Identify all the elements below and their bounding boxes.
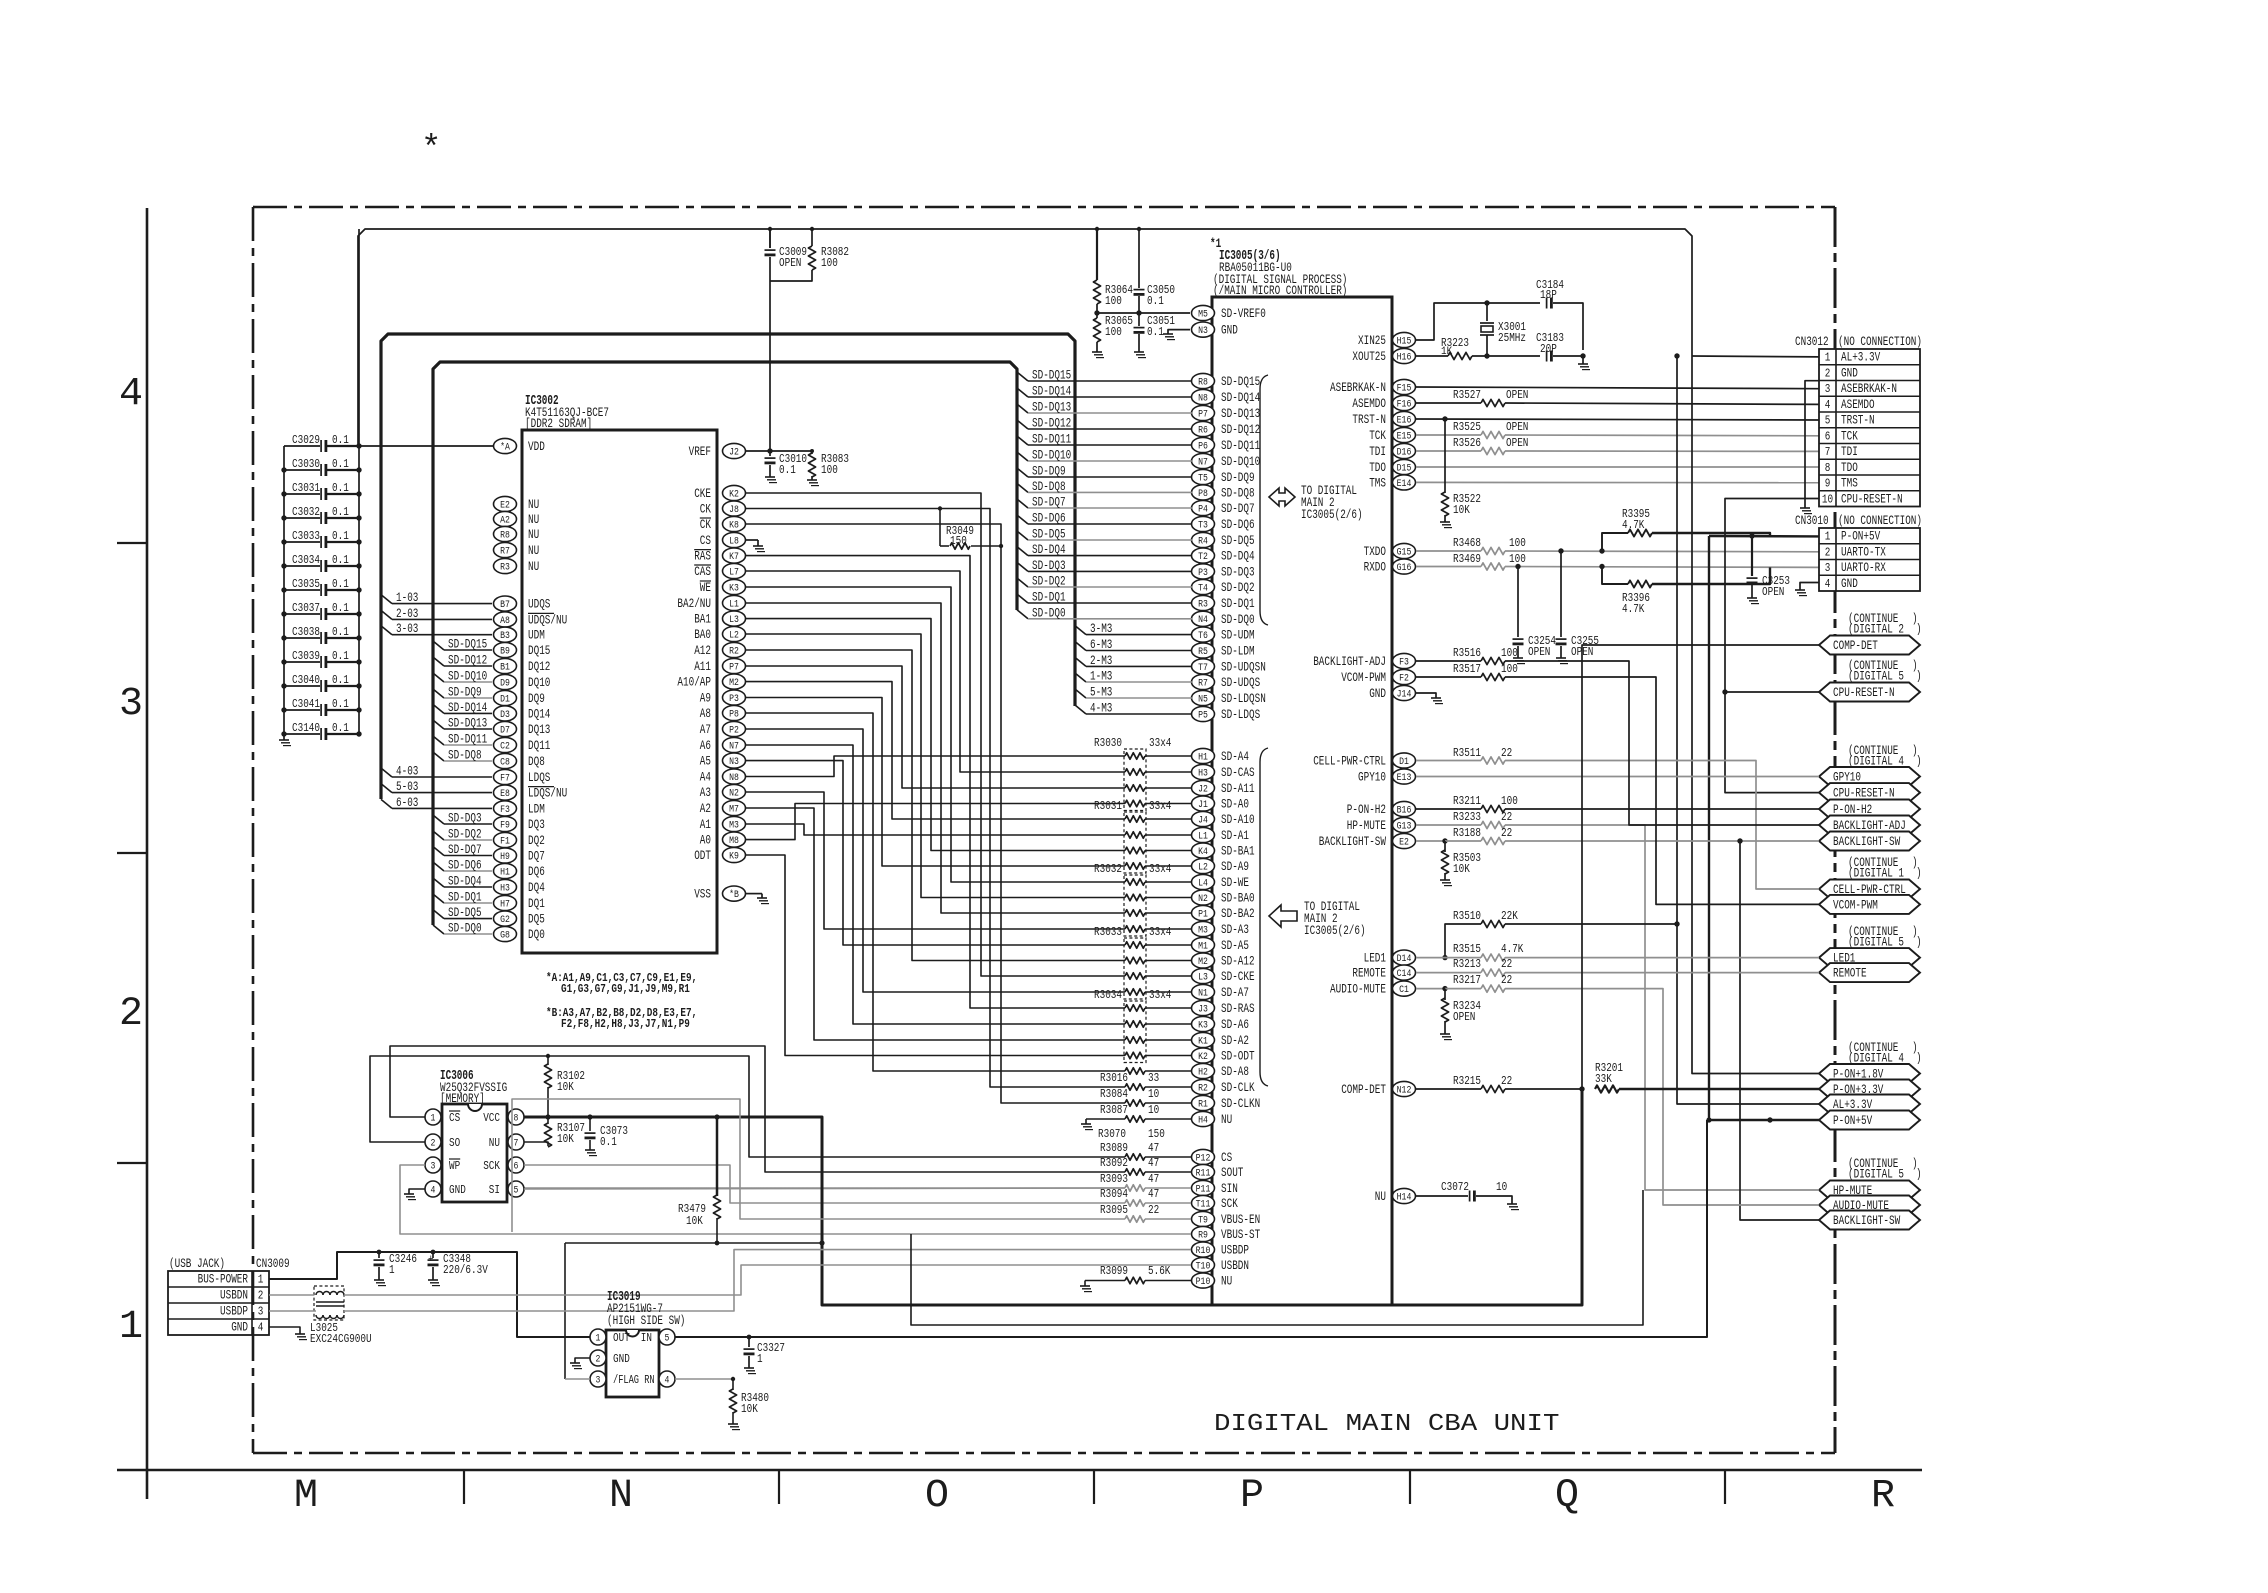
- svg-text:TDI: TDI: [1369, 444, 1386, 459]
- svg-text:(USB JACK): (USB JACK): [169, 1257, 225, 1271]
- net tag REMOTE: [1819, 963, 1920, 982]
- svg-text:C3037: C3037: [292, 601, 320, 615]
- svg-text:J8: J8: [729, 504, 739, 516]
- capacitor C3050 0.1: [1138, 229, 1140, 288]
- svg-text:47: 47: [1148, 1141, 1159, 1155]
- svg-text:N3: N3: [729, 756, 739, 768]
- svg-text:M1: M1: [1198, 940, 1208, 952]
- svg-text:N7: N7: [1198, 456, 1208, 468]
- svg-text:K3: K3: [729, 582, 739, 594]
- svg-text:N12: N12: [1397, 1084, 1412, 1096]
- IC3005 pin D14 LED1: [1393, 950, 1416, 965]
- svg-text:R3094: R3094: [1100, 1187, 1128, 1201]
- capacitor C3031: [284, 493, 320, 495]
- ground N3: [1168, 330, 1190, 334]
- net flag 6-03: [381, 799, 392, 808]
- svg-text:K7: K7: [729, 551, 739, 563]
- IC3005 pin T4 SD-DQ2: [1192, 579, 1215, 594]
- svg-text:*B: *B: [729, 889, 739, 901]
- svg-text:1: 1: [1825, 530, 1831, 544]
- IC3005 pin P4 SD-DQ7: [1192, 500, 1215, 515]
- svg-text:P8: P8: [729, 708, 739, 720]
- svg-text:(DIGITAL 5: (DIGITAL 5: [1848, 1168, 1904, 1182]
- svg-text:R2: R2: [1198, 1082, 1208, 1094]
- svg-text:H1: H1: [500, 866, 510, 878]
- wire BA1 route: [746, 619, 1126, 851]
- IC3005 pin G16 RXDO: [1393, 559, 1416, 574]
- svg-text:USBDP: USBDP: [220, 1305, 248, 1319]
- net tag BACKLIGHT-ADJ: [1819, 816, 1920, 835]
- svg-text:SD-DQ9: SD-DQ9: [1221, 470, 1255, 485]
- IC3002 pin M7 A2: [723, 800, 746, 815]
- IC3005 pin K2 SD-ODT: [1192, 1048, 1215, 1063]
- svg-text:T11: T11: [1196, 1198, 1211, 1210]
- svg-text:R3089: R3089: [1100, 1141, 1128, 1155]
- svg-text:0.1: 0.1: [1147, 294, 1164, 308]
- capacitor C3037: [284, 613, 320, 615]
- svg-text:OPEN: OPEN: [1453, 1010, 1475, 1024]
- svg-text:SD-VREF0: SD-VREF0: [1221, 306, 1266, 321]
- svg-text:SD-A9: SD-A9: [1221, 859, 1249, 874]
- IC3005 pin R11 SOUT: [1192, 1164, 1215, 1179]
- svg-text:E16: E16: [1397, 414, 1412, 426]
- bracket SD-A group: [1260, 748, 1268, 1086]
- svg-text:T4: T4: [1198, 582, 1208, 594]
- svg-text:SD-DQ10: SD-DQ10: [1221, 454, 1260, 469]
- IC3002 pin L1 BA2/NU: [723, 595, 746, 610]
- svg-text:): ): [1916, 670, 1922, 684]
- IC3005 pin F16 ASEMDO: [1393, 395, 1416, 410]
- svg-text:M2: M2: [729, 677, 739, 689]
- net flag SD-DQ6: [1017, 515, 1028, 524]
- net flag 1-03: [381, 595, 392, 604]
- IC3002 pin B1 DQ12: [494, 658, 517, 673]
- IC3002 pin B3 UDM: [494, 627, 517, 642]
- svg-text:3-M3: 3-M3: [1090, 621, 1112, 636]
- svg-text:SD-A3: SD-A3: [1221, 922, 1249, 937]
- IC3002 pin K9 ODT: [723, 847, 746, 862]
- svg-text:SD-DQ2: SD-DQ2: [1221, 580, 1255, 595]
- svg-text:NU: NU: [528, 543, 539, 558]
- IC3005 pin T6 SD-UDM: [1192, 627, 1215, 642]
- svg-text:220/6.3V: 220/6.3V: [443, 1263, 488, 1277]
- svg-text:C8: C8: [500, 756, 510, 768]
- svg-text:TRST-N: TRST-N: [1352, 412, 1386, 427]
- IC3002 pin C8 DQ8: [494, 753, 517, 768]
- svg-text:CPU-RESET-N: CPU-RESET-N: [1833, 685, 1895, 700]
- svg-text:2: 2: [596, 1354, 601, 1365]
- IC3002 pin *A VDD: [494, 438, 517, 453]
- svg-text:R10: R10: [1196, 1245, 1211, 1257]
- svg-text:6: 6: [514, 1161, 519, 1172]
- IC3005 pin N1 SD-A7: [1192, 984, 1215, 999]
- svg-text:H3: H3: [1198, 767, 1208, 779]
- svg-text:N2: N2: [1198, 893, 1208, 905]
- net flag SD-DQ4: [433, 878, 444, 887]
- net flag 2-M3: [1075, 657, 1086, 666]
- svg-text:H7: H7: [500, 898, 510, 910]
- svg-text:8: 8: [1825, 461, 1831, 475]
- svg-text:SD-DQ9: SD-DQ9: [448, 685, 482, 700]
- svg-text:100: 100: [1501, 794, 1518, 808]
- svg-text:L2: L2: [1198, 861, 1208, 873]
- svg-text:G13: G13: [1397, 820, 1412, 832]
- svg-text:F1: F1: [500, 835, 510, 847]
- svg-text:0.1: 0.1: [332, 649, 349, 663]
- svg-text:GND: GND: [613, 1353, 630, 1366]
- svg-text:P1: P1: [1198, 908, 1208, 920]
- svg-text:J4: J4: [1198, 814, 1208, 826]
- IC3005 pin J14 GND: [1393, 685, 1416, 700]
- svg-text:SD-DQ7: SD-DQ7: [1221, 501, 1255, 516]
- svg-text:P12: P12: [1196, 1152, 1211, 1164]
- svg-text:SD-DQ3: SD-DQ3: [1032, 558, 1066, 573]
- IC3005 pin K1 SD-A2: [1192, 1032, 1215, 1047]
- IC3005 pin D15 TDO: [1393, 459, 1416, 474]
- ground CN3009 pin4: [269, 1327, 300, 1334]
- IC3019 pin 2 GND: [590, 1350, 606, 1366]
- svg-text:33x4: 33x4: [1149, 736, 1171, 750]
- svg-text:10: 10: [1496, 1180, 1507, 1194]
- svg-text:SD-DQ0: SD-DQ0: [1221, 612, 1255, 627]
- svg-text:DQ1: DQ1: [528, 896, 545, 911]
- svg-text:1-03: 1-03: [396, 590, 418, 605]
- svg-text:DQ6: DQ6: [528, 864, 545, 879]
- svg-text:SD-LDM: SD-LDM: [1221, 644, 1255, 659]
- IC3005 pin M5 SD-VREF0: [1192, 305, 1215, 320]
- svg-text:K2: K2: [1198, 1051, 1208, 1063]
- svg-text:H4: H4: [1198, 1114, 1208, 1126]
- net flag SD-DQ7: [433, 847, 444, 856]
- svg-text:R3099: R3099: [1100, 1264, 1128, 1278]
- svg-text:2: 2: [258, 1289, 264, 1303]
- IC3005 pin C14 REMOTE: [1393, 965, 1416, 980]
- svg-text:BUS-POWER: BUS-POWER: [198, 1273, 249, 1287]
- svg-text:SD-DQ13: SD-DQ13: [1032, 400, 1071, 415]
- svg-text:0.1: 0.1: [332, 601, 349, 615]
- svg-text:NU: NU: [1375, 1189, 1386, 1204]
- svg-text:SD-DQ0: SD-DQ0: [448, 921, 482, 936]
- wire COMP-DET vertical: [1582, 645, 1819, 1089]
- svg-text:XOUT25: XOUT25: [1352, 349, 1386, 364]
- net tag P-ON-H2: [1819, 800, 1920, 819]
- svg-text:SD-DQ5: SD-DQ5: [1032, 527, 1066, 542]
- capacitor C3030: [284, 469, 320, 471]
- svg-text:4-03: 4-03: [396, 764, 418, 779]
- IC3002 pin H1 DQ6: [494, 863, 517, 878]
- svg-text:10: 10: [1822, 492, 1833, 506]
- net tag GPY10: [1819, 767, 1920, 786]
- ground CN3012 pin2: [1805, 381, 1819, 508]
- svg-text:SD-DQ4: SD-DQ4: [1221, 549, 1255, 564]
- svg-text:G16: G16: [1397, 562, 1412, 574]
- svg-text:0.1: 0.1: [332, 529, 349, 543]
- svg-text:SD-DQ1: SD-DQ1: [448, 890, 482, 905]
- IC3002 pin N2 A3: [723, 784, 746, 799]
- IC3005 pin J3 SD-RAS: [1192, 1000, 1215, 1015]
- svg-text:A5: A5: [700, 754, 711, 769]
- svg-text:3: 3: [258, 1305, 264, 1319]
- svg-text:OUT: OUT: [613, 1332, 630, 1345]
- svg-text:3: 3: [1825, 382, 1831, 396]
- wire /FLAG: [565, 1378, 590, 1380]
- svg-text:BA2/NU: BA2/NU: [677, 596, 711, 611]
- capacitor C3038: [284, 637, 320, 639]
- net flag SD-DQ2: [433, 831, 444, 840]
- svg-text:CELL-PWR-CTRL: CELL-PWR-CTRL: [1313, 754, 1386, 769]
- svg-text:2: 2: [431, 1138, 436, 1149]
- svg-text:22: 22: [1501, 810, 1512, 824]
- svg-text:R3087: R3087: [1100, 1103, 1128, 1117]
- svg-text:C2: C2: [500, 740, 510, 752]
- svg-text:VCOM-PWM: VCOM-PWM: [1341, 670, 1386, 685]
- wire A12 route: [746, 650, 1126, 961]
- svg-text:0.1: 0.1: [332, 673, 349, 687]
- svg-text:R3215: R3215: [1453, 1074, 1481, 1088]
- svg-text:SD-BA2: SD-BA2: [1221, 906, 1255, 921]
- svg-text:4-M3: 4-M3: [1090, 701, 1112, 716]
- net tag LED1: [1819, 948, 1920, 967]
- svg-text:OPEN: OPEN: [1528, 645, 1550, 659]
- svg-text:H14: H14: [1397, 1191, 1412, 1203]
- IC3005 pin P12 CS: [1192, 1149, 1215, 1164]
- svg-text:ASEBRKAK-N: ASEBRKAK-N: [1841, 382, 1897, 396]
- svg-text:SD-ODT: SD-ODT: [1221, 1049, 1255, 1064]
- net flag SD-DQ2: [1017, 578, 1028, 587]
- svg-text:SCK: SCK: [1221, 1196, 1238, 1211]
- net flag SD-DQ9: [1017, 468, 1028, 477]
- wire VCC trunk P-ON+3.3V: [524, 1089, 1582, 1305]
- net tag AUDIO-MUTE: [1819, 1196, 1920, 1215]
- svg-text:6-M3: 6-M3: [1090, 637, 1112, 652]
- svg-text:R: R: [1871, 1474, 1895, 1519]
- wire A10 route: [746, 682, 1126, 819]
- capacitor C3029: [284, 445, 320, 447]
- svg-text:0.1: 0.1: [1147, 325, 1164, 339]
- svg-text:R3: R3: [1198, 598, 1208, 610]
- svg-text:C3140: C3140: [292, 721, 320, 735]
- IC3002 pin N3 A5: [723, 753, 746, 768]
- svg-text:SD-DQ1: SD-DQ1: [1032, 590, 1066, 605]
- svg-text:(DIGITAL 4: (DIGITAL 4: [1848, 755, 1904, 769]
- svg-text:HP-MUTE: HP-MUTE: [1347, 818, 1386, 833]
- svg-text:DQ15: DQ15: [528, 643, 550, 658]
- svg-text:2: 2: [1825, 545, 1831, 559]
- net flag SD-DQ0: [433, 925, 444, 934]
- svg-text:E8: E8: [500, 788, 510, 800]
- svg-text:L3: L3: [1198, 971, 1208, 983]
- svg-text:A2: A2: [500, 514, 510, 526]
- svg-text:22: 22: [1148, 1203, 1159, 1217]
- IC3005 pin P5 SD-LDQS: [1192, 706, 1215, 721]
- wire A8 route: [746, 713, 1126, 1071]
- svg-text:CS: CS: [1221, 1150, 1232, 1165]
- wire BA0 route: [746, 634, 1126, 898]
- sheet frame bottom line: [117, 1469, 1922, 1472]
- IC3002 pin H3 DQ4: [494, 879, 517, 894]
- svg-text:33: 33: [1148, 1071, 1159, 1085]
- net flag 4-03: [381, 768, 392, 777]
- svg-text:D16: D16: [1397, 446, 1412, 458]
- svg-text:GND: GND: [231, 1321, 248, 1335]
- svg-text:COMP-DET: COMP-DET: [1341, 1082, 1386, 1097]
- svg-text:150: 150: [950, 535, 967, 548]
- svg-text:L1: L1: [729, 598, 739, 610]
- svg-text:F7: F7: [500, 772, 510, 784]
- resistor R3480 10K: [675, 1378, 733, 1380]
- svg-text:33x4: 33x4: [1149, 862, 1171, 876]
- svg-text:H2: H2: [1198, 1066, 1208, 1078]
- svg-text:NU: NU: [1221, 1112, 1232, 1127]
- net flag SD-DQ13: [1017, 404, 1028, 413]
- IC3002 pin H7 DQ1: [494, 895, 517, 910]
- net flag SD-DQ14: [433, 704, 444, 713]
- IC3005 pin H3 SD-CAS: [1192, 764, 1215, 779]
- IC3005 pin T5 SD-DQ9: [1192, 469, 1215, 484]
- wire RAS route: [746, 556, 1126, 1008]
- svg-text:): ): [1916, 623, 1922, 637]
- svg-text:J2: J2: [729, 446, 739, 458]
- svg-text:VBUS-EN: VBUS-EN: [1221, 1212, 1260, 1227]
- svg-text:D14: D14: [1397, 953, 1412, 965]
- svg-text:SD-A8: SD-A8: [1221, 1064, 1249, 1079]
- svg-text:SD-DQ2: SD-DQ2: [1032, 574, 1066, 589]
- net tag BACKLIGHT-SW: [1819, 832, 1920, 851]
- svg-text:VDD: VDD: [528, 439, 545, 454]
- IC3019 pin 1 OUT: [590, 1329, 606, 1345]
- wire SO loop: [370, 1056, 1125, 1157]
- IC3002 pin P3 A9: [723, 690, 746, 705]
- svg-text:UARTO-RX: UARTO-RX: [1841, 561, 1886, 575]
- svg-text:(DIGITAL 1: (DIGITAL 1: [1848, 867, 1904, 881]
- svg-text:M3: M3: [729, 819, 739, 831]
- arrow to digital main 2 (upper): [1269, 488, 1295, 506]
- svg-text:P3: P3: [1198, 567, 1208, 579]
- svg-text:0.1: 0.1: [332, 481, 349, 495]
- svg-text:M2: M2: [1198, 956, 1208, 968]
- svg-text:P5: P5: [1198, 709, 1208, 721]
- svg-text:5: 5: [665, 1333, 670, 1344]
- svg-text:N7: N7: [729, 740, 739, 752]
- svg-text:UDM: UDM: [528, 628, 545, 643]
- IC3005 pin T11 SCK: [1192, 1195, 1215, 1210]
- svg-text:R3095: R3095: [1100, 1203, 1128, 1217]
- svg-text:GND: GND: [1841, 366, 1858, 380]
- wire TRST-N: [1416, 419, 1819, 420]
- svg-text:P10: P10: [1196, 1276, 1211, 1288]
- IC3005 pin E13 GPY10: [1393, 769, 1416, 784]
- svg-text:SD-DQ12: SD-DQ12: [448, 653, 487, 668]
- svg-text:R3: R3: [500, 561, 510, 573]
- IC3002 pin P7 A11: [723, 658, 746, 673]
- svg-text:NU: NU: [528, 512, 539, 527]
- wire TDO: [1416, 466, 1819, 468]
- svg-text:SD-DQ14: SD-DQ14: [448, 700, 487, 715]
- net tag CPU-RESET-N: [1819, 683, 1920, 702]
- svg-text:22K: 22K: [1501, 909, 1518, 923]
- svg-text:10K: 10K: [1453, 862, 1470, 876]
- svg-text:1: 1: [389, 1263, 395, 1277]
- svg-text:R3070: R3070: [1098, 1127, 1126, 1141]
- svg-text:K9: K9: [729, 850, 739, 862]
- net tag P-ON+1.8V: [1819, 1064, 1920, 1083]
- wire flag row: [565, 1242, 822, 1244]
- IC3002 pin B9 DQ15: [494, 642, 517, 657]
- resistor R3102 10K: [547, 1056, 549, 1065]
- svg-text:SD-DQ11: SD-DQ11: [1221, 438, 1260, 453]
- IC3002 pin A2 NU: [494, 511, 517, 526]
- svg-text:LED1: LED1: [1364, 951, 1387, 966]
- IC3002 pin F1 DQ2: [494, 832, 517, 847]
- svg-text:R3030: R3030: [1094, 736, 1122, 750]
- svg-text:0.1: 0.1: [332, 721, 349, 735]
- svg-text:1-M3: 1-M3: [1090, 669, 1112, 684]
- svg-text:ODT: ODT: [694, 848, 711, 863]
- svg-text:J14: J14: [1397, 688, 1412, 700]
- IC3005 pin T2 SD-DQ4: [1192, 548, 1215, 563]
- svg-text:F9: F9: [500, 819, 510, 831]
- svg-text:100: 100: [821, 463, 838, 477]
- svg-text:SD-DQ12: SD-DQ12: [1032, 416, 1071, 431]
- svg-text:SD-LDQSN: SD-LDQSN: [1221, 691, 1266, 706]
- svg-text:CN3012: CN3012: [1795, 334, 1829, 349]
- svg-text:N8: N8: [1198, 392, 1208, 404]
- svg-text:SD-DQ3: SD-DQ3: [448, 811, 482, 826]
- IC3005 pin T10 USBDN: [1192, 1257, 1215, 1272]
- svg-text:A12: A12: [694, 643, 711, 658]
- svg-text:(NO CONNECTION): (NO CONNECTION): [1838, 334, 1922, 349]
- svg-text:C3033: C3033: [292, 529, 320, 543]
- svg-text:SD-DQ15: SD-DQ15: [1032, 368, 1071, 383]
- svg-text:C3032: C3032: [292, 505, 320, 519]
- svg-text:WE: WE: [700, 580, 711, 595]
- svg-text:DQ12: DQ12: [528, 659, 550, 674]
- capacitor C3035: [284, 589, 320, 591]
- capacitor C3348 220/6.3V: [432, 1252, 434, 1258]
- sheet frame left line: [146, 208, 149, 1499]
- svg-text:3: 3: [119, 682, 143, 727]
- svg-text:H15: H15: [1397, 335, 1412, 347]
- svg-text:N4: N4: [1198, 614, 1208, 626]
- wire bus1 loop (x-03 nets): [381, 334, 1075, 799]
- svg-text:NU: NU: [489, 1136, 500, 1150]
- svg-text:1: 1: [119, 1305, 143, 1350]
- svg-text:22: 22: [1501, 1074, 1512, 1088]
- svg-text:D1: D1: [1399, 756, 1409, 768]
- IC3005 pin G13 HP-MUTE: [1393, 817, 1416, 832]
- svg-text:J3: J3: [1198, 1003, 1208, 1015]
- svg-text:NU: NU: [528, 559, 539, 574]
- svg-text:P: P: [1240, 1474, 1264, 1519]
- svg-text:DQ4: DQ4: [528, 880, 545, 895]
- IC3002 pin G8 DQ0: [494, 926, 517, 941]
- svg-text:OPEN: OPEN: [1506, 388, 1528, 402]
- svg-text:TXDO: TXDO: [1364, 544, 1387, 559]
- svg-text:DQ2: DQ2: [528, 833, 545, 848]
- IC3002 pin E8 LDQS/NU: [494, 785, 517, 800]
- IC3006 pin 3 WP: [425, 1157, 441, 1173]
- svg-text:SD-DQ8: SD-DQ8: [1032, 479, 1066, 494]
- net flag SD-DQ9: [433, 689, 444, 698]
- capacitor C3327 1: [748, 1337, 750, 1347]
- wire VREF J2: [746, 450, 813, 452]
- resistor H2 row: [1125, 1068, 1145, 1074]
- wire VDD bus vertical: [358, 229, 360, 734]
- svg-text:D9: D9: [500, 677, 510, 689]
- wire WP to VBUS-ST: [400, 1165, 1191, 1234]
- IC3005 pin N7 SD-DQ10: [1192, 453, 1215, 468]
- svg-text:+: +: [428, 1254, 434, 1266]
